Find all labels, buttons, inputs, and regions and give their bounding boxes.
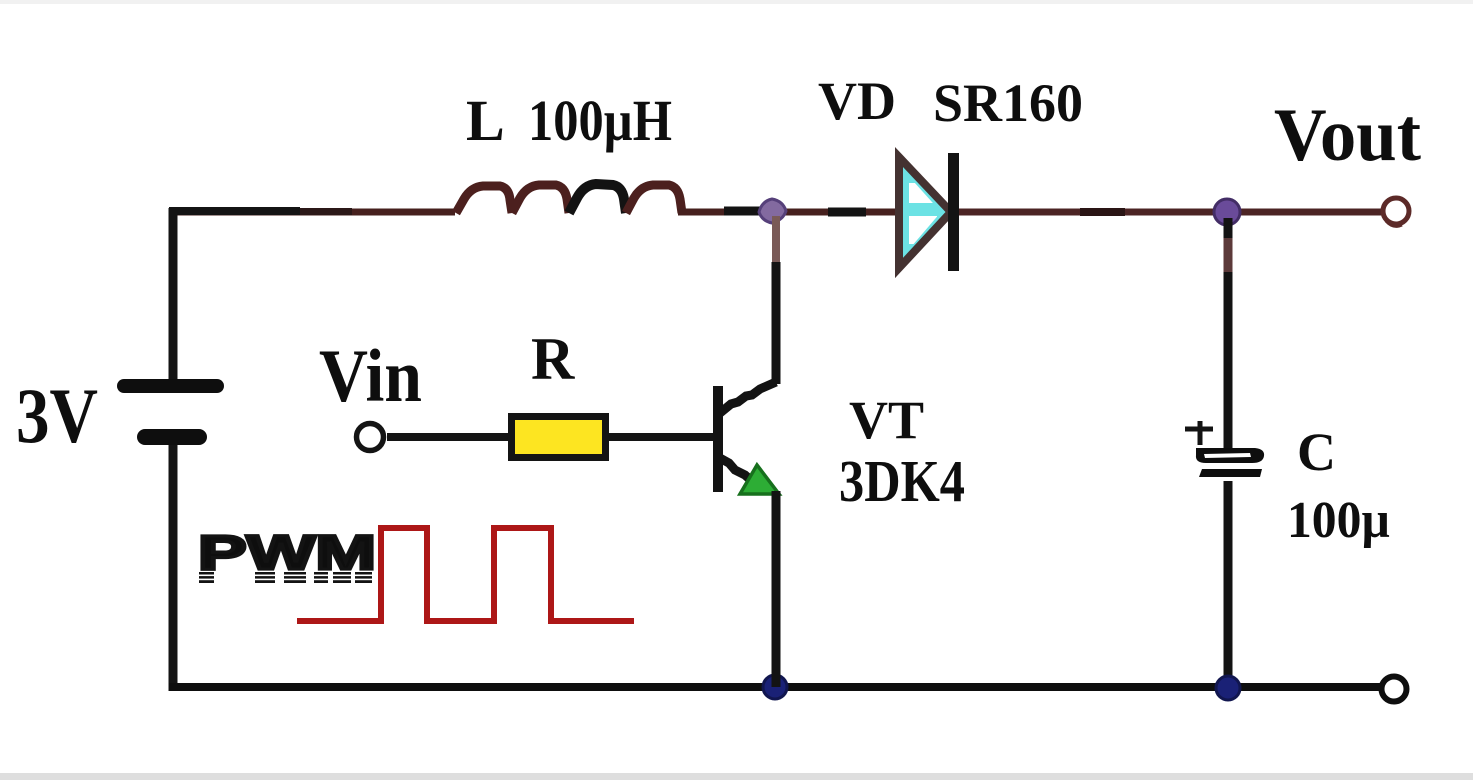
wire capacitor top vertical: [1224, 218, 1233, 450]
wire dark segment after diode: [1080, 208, 1125, 216]
svg-text:VT: VT: [849, 390, 924, 450]
svg-text:VD: VD: [818, 71, 896, 131]
svg-text:3DK4: 3DK4: [839, 448, 965, 514]
wire diode to vout node: [959, 209, 1382, 216]
wire black blotch segments: [724, 207, 762, 216]
wire emitter vertical: [772, 491, 781, 687]
wire resistor to base: [609, 433, 715, 441]
junction node (purple) at vout: [1214, 199, 1240, 225]
svg-text:R: R: [531, 326, 575, 392]
wire inductor to diode: [678, 209, 899, 216]
diode inner white windows: [909, 183, 939, 244]
wire collector vertical: [772, 262, 781, 384]
svg-text:L: L: [466, 88, 505, 153]
svg-text:SR160: SR160: [933, 73, 1083, 133]
inductor L hump 4: [626, 185, 682, 213]
terminal bottom-right circle: [1382, 677, 1407, 702]
resistor R body: [512, 417, 606, 458]
battery 3V top plate: [117, 379, 224, 393]
svg-text:100µ: 100µ: [1287, 492, 1390, 549]
wire collector vertical upper (brown fading): [772, 216, 780, 268]
terminal Vin circle: [357, 424, 384, 451]
top faint gray edge: [0, 0, 1473, 4]
svg-text:Vout: Vout: [1274, 94, 1421, 177]
wire top-left horizontal from battery to inductor: [169, 209, 455, 216]
diode VD triangle: [899, 157, 951, 268]
svg-text:100µH: 100µH: [528, 88, 672, 153]
wire top-left corner black segment: [169, 207, 300, 215]
transistor emitter diagonal: [718, 457, 754, 483]
wire capacitor maroon blotch: [1224, 238, 1233, 272]
svg-text:3V: 3V: [16, 372, 98, 459]
wire left vertical battery to top rail: [169, 208, 178, 380]
transistor collector diagonal: [720, 382, 776, 413]
battery 3V bottom plate: [137, 429, 207, 445]
PWM square wave: [297, 528, 634, 621]
capacitor top plate: [1196, 448, 1264, 463]
inductor L hump 2: [512, 185, 569, 213]
wire left vertical battery to bottom rail: [169, 444, 178, 691]
junction node emitter-ground (navy): [763, 675, 787, 699]
wire Vin to resistor: [387, 433, 512, 441]
capacitor bottom plate: [1199, 469, 1262, 477]
capacitor plus sign: [1185, 421, 1213, 445]
transistor emitter arrow (green): [740, 465, 779, 494]
transistor VT base bar: [713, 386, 723, 492]
svg-text:C: C: [1297, 422, 1336, 482]
wire bottom rail: [169, 683, 1383, 691]
bottom gray band: [0, 773, 1473, 780]
inductor L hump 3 (dark): [569, 184, 626, 213]
inductor L hump 1: [456, 186, 512, 213]
terminal Vout circle: [1383, 198, 1409, 224]
svg-text:Vin: Vin: [319, 335, 422, 418]
junction node capacitor-ground (navy): [1216, 676, 1240, 700]
PWM underline dashes: [199, 572, 372, 583]
wire capacitor bottom vertical: [1224, 481, 1233, 688]
junction node (purple) at collector: [759, 199, 786, 223]
diode cathode bar: [948, 153, 959, 271]
